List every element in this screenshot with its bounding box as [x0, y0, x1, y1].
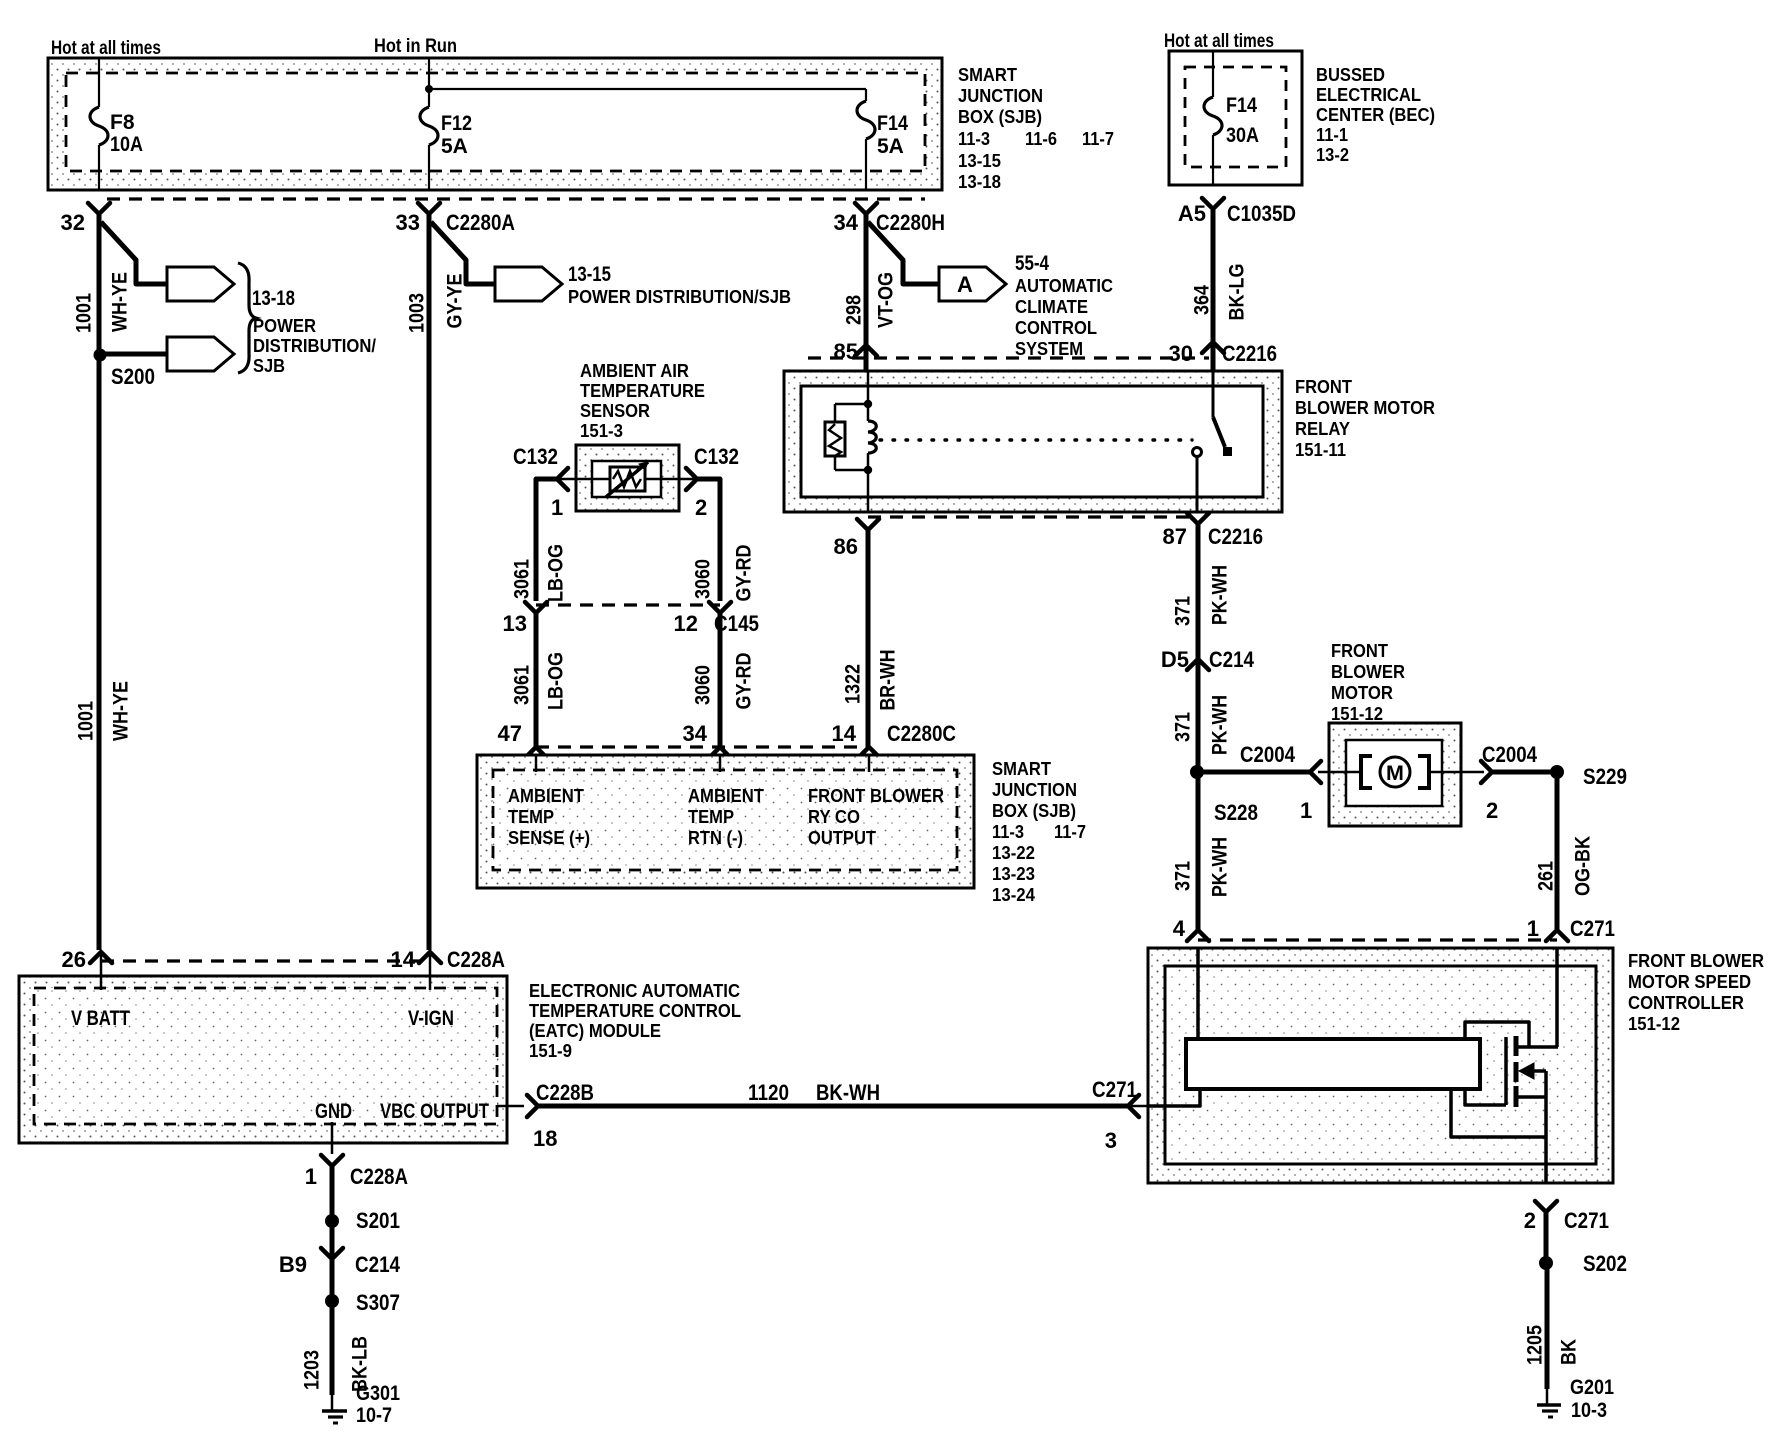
svg-text:C2280H: C2280H — [876, 210, 945, 235]
svg-text:BOX (SJB): BOX (SJB) — [992, 800, 1076, 821]
svg-text:3061: 3061 — [511, 665, 534, 705]
svg-text:30: 30 — [1169, 341, 1193, 366]
svg-text:C228B: C228B — [536, 1080, 594, 1105]
svg-text:RTN (-): RTN (-) — [688, 827, 743, 848]
svg-text:C271: C271 — [1570, 916, 1615, 941]
wire pin2 to S202 — [1544, 1212, 1549, 1263]
svg-text:1322: 1322 — [842, 664, 865, 704]
svg-text:VBC OUTPUT: VBC OUTPUT — [380, 1100, 489, 1123]
wire F14 drop — [865, 89, 867, 101]
svg-text:G201: G201 — [1570, 1376, 1614, 1399]
svg-text:55-4: 55-4 — [1015, 252, 1049, 275]
svg-text:BLOWER MOTOR: BLOWER MOTOR — [1295, 397, 1435, 418]
relay suppression resistor — [834, 404, 837, 422]
svg-text:Hot at all times: Hot at all times — [51, 37, 161, 59]
motor bracket right — [1418, 756, 1429, 788]
svg-text:AMBIENT: AMBIENT — [508, 785, 585, 806]
svg-text:C271: C271 — [1092, 1077, 1137, 1102]
relay inner box — [801, 386, 1263, 497]
dashed line below SJB — [107, 197, 925, 200]
motor lead right — [1429, 771, 1484, 774]
svg-text:2: 2 — [1486, 798, 1498, 823]
wire stub pin34 — [719, 755, 722, 772]
relay coil wire bottom — [867, 453, 870, 512]
svg-text:C271: C271 — [1564, 1208, 1609, 1233]
svg-text:5A: 5A — [877, 135, 904, 158]
svg-text:151-12: 151-12 — [1628, 1013, 1680, 1034]
svg-text:POWER DISTRIBUTION/SJB: POWER DISTRIBUTION/SJB — [568, 286, 791, 307]
svg-text:C132: C132 — [513, 444, 558, 469]
svg-text:FRONT: FRONT — [1295, 376, 1353, 397]
svg-text:C228A: C228A — [350, 1164, 408, 1189]
wire motor to S229 — [1492, 770, 1557, 775]
svg-text:1: 1 — [551, 495, 563, 520]
svg-text:POWER: POWER — [253, 315, 316, 336]
svg-text:GY-YE: GY-YE — [444, 274, 467, 329]
svg-text:C132: C132 — [694, 444, 739, 469]
svg-text:13-18: 13-18 — [252, 287, 295, 310]
wire 3061 LB-OG upper — [536, 479, 557, 601]
wire stub pin14 — [868, 755, 871, 772]
svg-text:S200: S200 — [111, 364, 155, 389]
wire 371 PK-WH middle — [1196, 659, 1201, 772]
svg-text:3: 3 — [1105, 1128, 1117, 1153]
wire stub C228B — [497, 1105, 524, 1108]
fuse F12 — [420, 107, 438, 145]
svg-text:13-23: 13-23 — [992, 863, 1035, 884]
sensor inner box — [592, 461, 661, 497]
svg-text:2: 2 — [1524, 1208, 1536, 1233]
svg-text:D5: D5 — [1161, 647, 1189, 672]
transistor Q1 drain lead — [1516, 1045, 1558, 1049]
svg-text:C214: C214 — [355, 1252, 401, 1277]
svg-text:TEMP: TEMP — [688, 806, 734, 827]
svg-text:CLIMATE: CLIMATE — [1015, 296, 1088, 317]
svg-text:LB-OG: LB-OG — [545, 652, 568, 710]
sensor lead wire — [536, 478, 720, 481]
front blower motor speed controller outline — [1148, 948, 1613, 1183]
svg-text:SMART: SMART — [992, 758, 1052, 779]
svg-text:151-9: 151-9 — [529, 1040, 572, 1061]
ambient air temperature sensor outline — [576, 445, 679, 511]
svg-text:87: 87 — [1163, 524, 1187, 549]
dashed boundary above relay — [808, 356, 1209, 359]
connector pin 34 C2280H — [855, 203, 877, 214]
wire stub pin14 EATC — [429, 952, 432, 990]
branch to power distribution ref 13-18 — [101, 222, 167, 284]
splice S307 — [325, 1294, 339, 1308]
wire below F8 — [98, 145, 100, 191]
off-page ref 13-15 — [495, 267, 562, 301]
svg-text:10-3: 10-3 — [1571, 1399, 1607, 1422]
svg-text:S307: S307 — [356, 1290, 400, 1315]
svg-text:11-6: 11-6 — [1025, 128, 1057, 149]
motor M symbol — [1380, 757, 1410, 787]
svg-text:13-24: 13-24 — [992, 884, 1036, 905]
relay switch pin30 lead — [1212, 371, 1215, 417]
relay switch contact left — [1193, 448, 1202, 457]
svg-text:BK-LG: BK-LG — [1226, 264, 1249, 321]
ground G201 — [1537, 1403, 1561, 1407]
svg-text:371: 371 — [1172, 596, 1195, 626]
svg-text:11-7: 11-7 — [1082, 128, 1114, 149]
ground G301 — [322, 1409, 347, 1413]
svg-text:S202: S202 — [1583, 1251, 1627, 1276]
connector pin 87 C2216 — [1187, 513, 1209, 524]
svg-text:1001: 1001 — [75, 701, 98, 741]
svg-text:MOTOR: MOTOR — [1331, 682, 1393, 703]
wire 1003 GY-YE — [427, 214, 432, 950]
svg-text:1001: 1001 — [73, 293, 96, 333]
connector pin 26 — [90, 952, 112, 963]
svg-text:1: 1 — [1300, 798, 1312, 823]
connector D5 C214 — [1187, 659, 1209, 670]
fuse F8 — [90, 107, 108, 145]
wire 1205 BK — [1545, 1263, 1550, 1389]
connector pin 86 — [857, 519, 879, 530]
wire 1322 BR-WH — [866, 530, 871, 747]
svg-text:5A: 5A — [441, 135, 468, 158]
svg-text:13-15: 13-15 — [958, 150, 1001, 171]
svg-text:G301: G301 — [356, 1382, 400, 1405]
svg-text:MOTOR SPEED: MOTOR SPEED — [1628, 971, 1751, 992]
svg-text:C228A: C228A — [447, 947, 505, 972]
svg-text:1203: 1203 — [301, 1350, 324, 1390]
svg-text:V BATT: V BATT — [71, 1007, 130, 1030]
svg-text:C2004: C2004 — [1482, 742, 1538, 767]
svg-text:10A: 10A — [110, 133, 143, 156]
svg-text:A5: A5 — [1178, 201, 1206, 226]
svg-text:33: 33 — [396, 210, 420, 235]
wire 3060 GY-RD upper — [697, 479, 720, 601]
svg-text:ELECTRICAL: ELECTRICAL — [1316, 84, 1421, 105]
svg-text:TEMP: TEMP — [508, 806, 554, 827]
wire BEC fuse drop — [1212, 51, 1214, 97]
SJB inner dashed boundary — [66, 73, 925, 171]
connector pin 85 — [855, 345, 877, 356]
svg-text:A: A — [957, 272, 973, 297]
svg-text:SENSOR: SENSOR — [580, 400, 650, 421]
transistor Q1 source lead — [1516, 1095, 1546, 1099]
svg-text:371: 371 — [1172, 712, 1195, 742]
svg-text:SMART: SMART — [958, 64, 1018, 85]
wire F12 drop — [428, 58, 430, 107]
wire 364 BK-LG — [1211, 209, 1216, 371]
svg-text:F8: F8 — [110, 111, 135, 134]
relay coil bottom junction — [864, 466, 872, 474]
svg-text:13-2: 13-2 — [1316, 144, 1349, 165]
wire 371 PK-WH lower — [1196, 772, 1201, 930]
EATC inner dashed boundary — [34, 988, 497, 1124]
off-page ref power distribution — [167, 337, 234, 371]
wire gnd C214 to S307 — [330, 1259, 335, 1301]
svg-text:BK-WH: BK-WH — [816, 1080, 880, 1105]
svg-text:S201: S201 — [356, 1208, 400, 1233]
svg-text:B9: B9 — [279, 1252, 307, 1277]
svg-text:SJB: SJB — [253, 355, 285, 376]
relay coil wire top — [867, 371, 870, 421]
dashed boundary below relay — [868, 515, 1197, 518]
EATC module outline — [19, 976, 507, 1143]
wire 3060 GY-RD lower — [718, 613, 723, 747]
svg-text:GND: GND — [315, 1100, 352, 1123]
svg-text:F14: F14 — [877, 112, 908, 135]
transistor Q1 gate electrode — [1504, 1037, 1508, 1105]
svg-text:GY-RD: GY-RD — [733, 653, 756, 710]
dashed line above controller — [1198, 938, 1557, 941]
svg-text:ELECTRONIC AUTOMATIC: ELECTRONIC AUTOMATIC — [529, 980, 740, 1001]
svg-text:32: 32 — [61, 210, 85, 235]
svg-text:C2280A: C2280A — [446, 210, 515, 235]
connector C2004 pin2 — [1481, 761, 1492, 783]
off-page ref 13-18 — [167, 267, 234, 301]
svg-text:11-1: 11-1 — [1316, 124, 1348, 145]
front blower motor outline — [1329, 723, 1461, 826]
fuse F14 (SJB) — [857, 101, 875, 139]
svg-text:298: 298 — [843, 295, 866, 325]
relay coil — [868, 421, 876, 453]
svg-text:CENTER (BEC): CENTER (BEC) — [1316, 104, 1435, 125]
svg-text:C2216: C2216 — [1222, 341, 1277, 366]
relay pin87 lead — [1196, 457, 1199, 512]
svg-text:OUTPUT: OUTPUT — [808, 827, 877, 848]
svg-text:1205: 1205 — [1524, 1325, 1547, 1365]
svg-text:12: 12 — [674, 611, 698, 636]
branch to power distribution ref 13-15 — [431, 222, 495, 284]
svg-text:11-7: 11-7 — [1054, 821, 1086, 842]
svg-text:CONTROLLER: CONTROLLER — [1628, 992, 1744, 1013]
connector pin 47 — [525, 747, 547, 758]
bussed electrical center outline — [1169, 51, 1302, 185]
transistor Q1 source wire — [1544, 1071, 1548, 1183]
svg-text:PK-WH: PK-WH — [1209, 565, 1232, 625]
svg-text:C2216: C2216 — [1208, 524, 1263, 549]
controller inner box — [1165, 966, 1596, 1164]
svg-text:OG-BK: OG-BK — [1572, 836, 1595, 896]
thermistor element — [610, 467, 645, 491]
connector C271 pin3 — [1128, 1095, 1139, 1117]
svg-text:11-3: 11-3 — [958, 128, 990, 149]
connector C228B — [527, 1095, 538, 1117]
svg-text:151-11: 151-11 — [1295, 439, 1346, 460]
svg-text:BR-WH: BR-WH — [877, 650, 900, 711]
smart junction box lower outline — [477, 755, 974, 888]
wire pin4 into controller — [1196, 948, 1200, 1041]
wire pin1 into controller (drain) — [1555, 948, 1559, 1047]
connector C132 left — [557, 468, 568, 490]
svg-text:FRONT BLOWER: FRONT BLOWER — [808, 785, 944, 806]
connector pin 4 C271 — [1187, 930, 1209, 941]
svg-text:BUSSED: BUSSED — [1316, 64, 1385, 85]
svg-text:Hot at all times: Hot at all times — [1164, 30, 1274, 52]
svg-text:1003: 1003 — [406, 293, 429, 333]
svg-text:10-7: 10-7 — [356, 1404, 392, 1427]
transistor Q1 channel bars — [1514, 1036, 1519, 1056]
svg-text:S228: S228 — [1214, 800, 1258, 825]
svg-text:BOX (SJB): BOX (SJB) — [958, 106, 1042, 127]
motor lead left — [1318, 771, 1362, 774]
svg-text:13-22: 13-22 — [992, 842, 1035, 863]
wire stub pin47 — [535, 755, 538, 772]
svg-text:SENSE (+): SENSE (+) — [508, 827, 590, 848]
bar to drain link — [1465, 1022, 1529, 1047]
svg-text:14: 14 — [832, 721, 857, 746]
connector C2004 pin1 — [1310, 761, 1321, 783]
connector pin 33 C2280A — [418, 203, 440, 214]
svg-text:BLOWER: BLOWER — [1331, 661, 1405, 682]
relay switch arm — [1213, 417, 1225, 447]
svg-text:364: 364 — [1191, 285, 1214, 315]
connector B9 C214 — [321, 1248, 343, 1259]
svg-text:47: 47 — [498, 721, 522, 746]
svg-text:34: 34 — [834, 210, 859, 235]
transistor Q1 gate link — [1465, 1089, 1506, 1105]
wire F8 drop — [98, 58, 100, 107]
svg-text:151-3: 151-3 — [580, 420, 623, 441]
svg-text:13-18: 13-18 — [958, 171, 1001, 192]
svg-text:C2280C: C2280C — [887, 721, 956, 746]
svg-text:TEMPERATURE CONTROL: TEMPERATURE CONTROL — [529, 1000, 741, 1021]
svg-text:261: 261 — [1535, 861, 1558, 891]
splice S201 — [325, 1214, 339, 1228]
splice S228 — [1190, 765, 1204, 779]
relay switch contact right — [1223, 447, 1232, 456]
BEC inner dashed boundary — [1185, 67, 1286, 167]
svg-text:30A: 30A — [1226, 124, 1259, 147]
connector pin 1 C271 — [1546, 930, 1568, 941]
connector pin 14 C228A — [419, 952, 441, 963]
svg-text:13: 13 — [503, 611, 527, 636]
wire pin3 to bar — [1148, 1089, 1200, 1106]
svg-text:34: 34 — [683, 721, 708, 746]
svg-text:1: 1 — [305, 1164, 317, 1189]
connector A5 C1035D — [1202, 198, 1224, 209]
wire 371 PK-WH upper — [1196, 524, 1201, 659]
svg-text:S229: S229 — [1583, 764, 1627, 789]
svg-text:RELAY: RELAY — [1295, 418, 1351, 439]
connector C132 right — [686, 468, 697, 490]
transistor Q1 body arrow — [1526, 1069, 1546, 1073]
svg-text:AUTOMATIC: AUTOMATIC — [1015, 275, 1113, 296]
svg-text:VT-OG: VT-OG — [875, 272, 898, 328]
splice S200 — [94, 349, 107, 362]
svg-text:1120: 1120 — [748, 1080, 789, 1105]
motor inner box — [1346, 740, 1442, 806]
splice S229 — [1550, 765, 1564, 779]
svg-text:RY CO: RY CO — [808, 806, 860, 827]
svg-text:2: 2 — [695, 495, 707, 520]
connector pin 30 C2216 — [1202, 342, 1224, 353]
connector 12 C145 — [709, 602, 731, 613]
svg-text:PK-WH: PK-WH — [1209, 837, 1232, 897]
svg-text:85: 85 — [834, 339, 858, 364]
relay coil top junction — [864, 400, 872, 408]
junction at F12 feed — [425, 85, 433, 93]
wire below BEC fuse — [1212, 135, 1214, 185]
svg-text:13-15: 13-15 — [568, 263, 611, 286]
wire 298 VT-OG — [864, 214, 869, 371]
wire GND inside EATC — [331, 1122, 334, 1154]
svg-text:BK: BK — [1558, 1339, 1581, 1365]
connector 13 C145 — [525, 602, 547, 613]
svg-text:PK-WH: PK-WH — [1209, 695, 1232, 755]
svg-text:11-3: 11-3 — [992, 821, 1024, 842]
svg-text:F14: F14 — [1226, 94, 1257, 117]
svg-text:FRONT: FRONT — [1331, 640, 1389, 661]
svg-text:LB-OG: LB-OG — [545, 544, 568, 602]
wire S228 to motor — [1197, 770, 1310, 775]
svg-text:F12: F12 — [441, 112, 472, 135]
dashed line C145 — [536, 603, 720, 606]
off-page ref A climate control — [939, 267, 1006, 301]
connector pin 34 (SJB) — [709, 747, 731, 758]
svg-text:86: 86 — [834, 534, 858, 559]
connector pin 32 — [88, 203, 110, 214]
svg-text:(EATC) MODULE: (EATC) MODULE — [529, 1020, 661, 1041]
svg-text:Hot in Run: Hot in Run — [374, 35, 457, 57]
svg-text:1: 1 — [1527, 916, 1539, 941]
wire 1120 BK-WH — [538, 1104, 1128, 1109]
svg-text:SYSTEM: SYSTEM — [1015, 338, 1083, 359]
connector pin 1 C228A — [321, 1155, 343, 1166]
dashed line above EATC — [101, 959, 430, 962]
wire below F12 — [428, 145, 430, 191]
svg-text:26: 26 — [62, 947, 86, 972]
svg-text:4: 4 — [1173, 916, 1186, 941]
SJB lower inner dashed boundary — [493, 770, 957, 870]
svg-text:3060: 3060 — [692, 559, 715, 599]
splice S202 — [1539, 1256, 1553, 1270]
wire 261 OG-BK — [1555, 772, 1560, 930]
connector pin 14 C2280C — [858, 747, 880, 758]
connector pin 2 C271 — [1535, 1201, 1557, 1212]
svg-text:JUNCTION: JUNCTION — [958, 85, 1043, 106]
svg-text:18: 18 — [533, 1126, 557, 1151]
svg-text:TEMPERATURE: TEMPERATURE — [580, 380, 705, 401]
wire S200 to ref — [100, 352, 167, 357]
branch to climate control ref — [868, 222, 939, 284]
svg-text:CONTROL: CONTROL — [1015, 317, 1097, 338]
svg-text:JUNCTION: JUNCTION — [992, 779, 1077, 800]
smart junction box SJB outline — [48, 58, 942, 190]
fuse F14 (BEC) — [1204, 97, 1222, 135]
svg-text:3061: 3061 — [511, 559, 534, 599]
wire SJB feed F12 to F14 — [429, 88, 866, 90]
svg-text:371: 371 — [1172, 861, 1195, 891]
dashed line C2280C — [536, 745, 869, 748]
svg-text:DISTRIBUTION/: DISTRIBUTION/ — [253, 335, 376, 356]
wire gnd S201 to C214 — [330, 1221, 335, 1259]
relay actuation dotted line — [880, 438, 1192, 441]
wire stub pin3 — [1128, 1105, 1148, 1108]
wire gnd upper — [330, 1166, 335, 1221]
svg-text:FRONT BLOWER: FRONT BLOWER — [1628, 950, 1764, 971]
wire below F14 — [865, 139, 867, 191]
controller logic bar — [1186, 1039, 1480, 1089]
svg-text:M: M — [1386, 761, 1404, 785]
svg-text:AMBIENT: AMBIENT — [688, 785, 765, 806]
wire 1203 BK-LB — [330, 1301, 335, 1395]
svg-text:AMBIENT AIR: AMBIENT AIR — [580, 360, 689, 381]
svg-text:C1035D: C1035D — [1227, 201, 1296, 226]
svg-text:WH-YE: WH-YE — [109, 272, 132, 332]
wire 3061 LB-OG lower — [534, 613, 539, 747]
svg-text:V-IGN: V-IGN — [408, 1007, 454, 1030]
svg-text:C214: C214 — [1209, 647, 1255, 672]
wire 1001 WH-YE upper — [97, 214, 102, 950]
svg-text:GY-RD: GY-RD — [733, 545, 756, 602]
svg-text:C2004: C2004 — [1240, 742, 1296, 767]
